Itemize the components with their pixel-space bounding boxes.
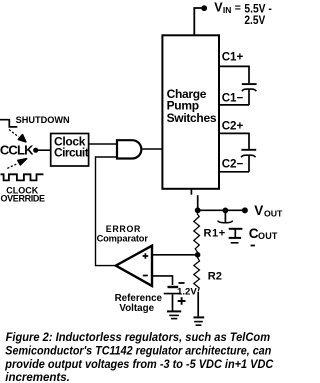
battery reference 1.2V	[164, 283, 186, 305]
svg-text:IN: IN	[223, 5, 232, 15]
svg-text:OVERRIDE: OVERRIDE	[1, 194, 46, 204]
capacitor C2	[241, 150, 256, 172]
ground under R2	[194, 317, 205, 325]
wire op-amp - input	[152, 276, 173, 285]
AND gate G1	[117, 140, 141, 158]
svg-text:CCLK: CCLK	[0, 143, 34, 158]
capacitor C1	[242, 84, 257, 105]
wire to output node	[197, 195, 199, 210]
svg-text:=: =	[235, 2, 241, 14]
capacitor COUT body	[229, 229, 243, 243]
wire R2 to ground	[197, 292, 199, 316]
ground under battery	[167, 311, 181, 318]
label COUT	[249, 226, 278, 241]
wire battery to ground	[172, 294, 174, 310]
label minus under COUT	[251, 245, 255, 247]
svg-text:C2−: C2−	[222, 158, 244, 171]
wire AND output to box	[142, 148, 162, 150]
svg-text:Comparator: Comparator	[97, 234, 149, 244]
svg-text:V: V	[254, 203, 263, 218]
svg-text:1.2V: 1.2V	[177, 287, 197, 298]
node junction B	[223, 208, 229, 214]
label CLOCK OVERRIDE	[1, 186, 46, 204]
svg-text:OUT: OUT	[264, 208, 283, 218]
wire shutdown entry	[0, 120, 17, 127]
arrow clock override to CCLK	[7, 159, 26, 169]
wire output rail	[198, 209, 245, 211]
node junction R1/R2	[195, 252, 201, 258]
caption Figure 2	[4, 332, 274, 383]
label - input	[143, 275, 148, 277]
wire feedback op-amp output to AND input	[96, 157, 118, 266]
arrow shutdown to CCLK	[9, 130, 26, 142]
wire CCLK to clock box	[37, 149, 51, 151]
wire clock to AND input	[89, 143, 117, 145]
pin C2- wire	[219, 171, 249, 173]
label ERROR Comparator	[97, 224, 149, 244]
resistor R1	[194, 212, 200, 252]
svg-text:2.5V: 2.5V	[244, 15, 265, 27]
label VOUT	[254, 203, 283, 218]
svg-text:Circuit: Circuit	[54, 146, 89, 160]
node VOUT terminal dot	[242, 207, 248, 213]
capacitor COUT top curved plate	[218, 221, 233, 223]
wire op-amp + input to junction	[152, 254, 198, 256]
svg-text:increments.: increments.	[5, 372, 70, 383]
svg-text:Semiconductor's TC1142 regulat: Semiconductor's TC1142 regulator archite…	[5, 345, 271, 357]
svg-text:R1+: R1+	[204, 228, 226, 240]
resistor R2	[194, 256, 200, 291]
label VIN = 5.5V - 2.5V	[214, 1, 272, 28]
svg-text:Switches: Switches	[167, 111, 217, 125]
op-amp U2 error comparator	[116, 246, 152, 286]
node CCLK dot	[33, 148, 38, 153]
svg-text:Figure 2: Inductorless regulat: Figure 2: Inductorless regulators, such …	[6, 332, 271, 344]
svg-text:C1−: C1−	[222, 92, 244, 105]
svg-text:5.5V -: 5.5V -	[244, 4, 272, 16]
svg-text:C2+: C2+	[222, 120, 244, 133]
wire COUT stub	[224, 210, 226, 223]
label Reference Voltage	[115, 293, 163, 314]
node VIN terminal dot	[201, 5, 207, 11]
svg-text:provide output voltages from -: provide output voltages from -3 to -5 VD…	[4, 359, 274, 371]
svg-text:SHUTDOWN: SHUTDOWN	[16, 115, 70, 125]
pin C1- wire	[219, 104, 249, 106]
wire VIN vertical+horizontal	[194, 8, 201, 36]
svg-text:Voltage: Voltage	[119, 303, 154, 314]
svg-text:R2: R2	[208, 271, 222, 283]
svg-text:ERROR: ERROR	[106, 224, 141, 234]
node junction A	[195, 207, 201, 213]
label + input	[143, 253, 149, 259]
svg-text:C1+: C1+	[222, 51, 244, 64]
charge pump switches box U1	[162, 35, 219, 189]
svg-text:OUT: OUT	[258, 231, 278, 241]
wire stub below box	[190, 189, 192, 195]
pin C2+ wire	[219, 133, 249, 149]
pin C1+ wire	[219, 66, 249, 83]
clock override waveform	[1, 174, 44, 180]
svg-text:V: V	[214, 1, 223, 15]
clock circuit box U3	[51, 134, 89, 167]
